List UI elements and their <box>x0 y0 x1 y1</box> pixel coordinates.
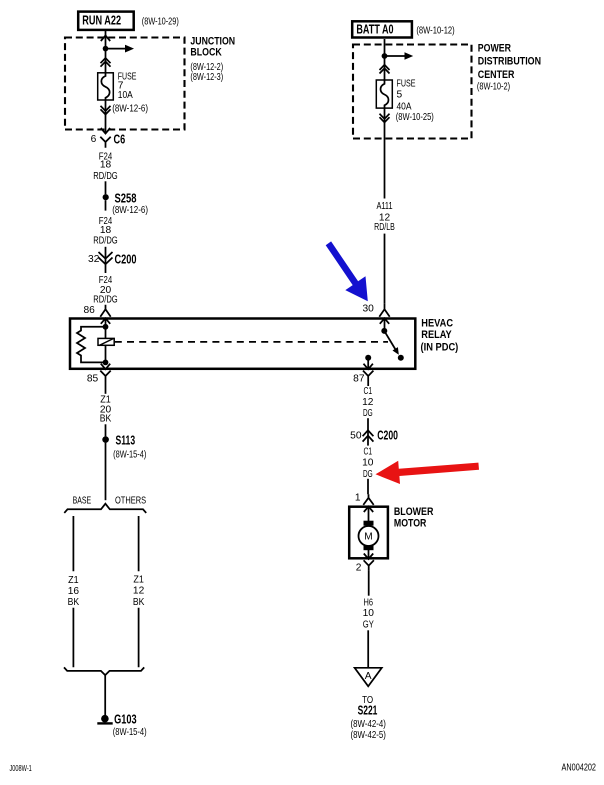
svg-text:(8W-10-29): (8W-10-29) <box>142 16 179 27</box>
svg-text:DISTRIBUTION: DISTRIBUTION <box>478 56 541 68</box>
svg-text:(8W-12-3): (8W-12-3) <box>190 72 223 83</box>
svg-text:S221: S221 <box>358 703 378 718</box>
svg-text:DG: DG <box>363 469 373 480</box>
svg-text:BASE: BASE <box>73 496 92 507</box>
svg-text:(8W-12-6): (8W-12-6) <box>112 205 148 216</box>
svg-text:18: 18 <box>100 225 112 236</box>
svg-text:2: 2 <box>356 562 362 573</box>
svg-text:50: 50 <box>350 431 362 442</box>
svg-text:GY: GY <box>363 619 374 630</box>
svg-text:10: 10 <box>363 608 375 619</box>
svg-text:J008W-1: J008W-1 <box>10 763 33 773</box>
svg-text:BK: BK <box>133 597 145 608</box>
svg-text:BATT A0: BATT A0 <box>356 22 393 37</box>
svg-text:BK: BK <box>100 413 112 424</box>
svg-text:MOTOR: MOTOR <box>394 517 427 529</box>
svg-text:RELAY: RELAY <box>421 329 452 341</box>
svg-text:32: 32 <box>88 254 100 265</box>
svg-text:CENTER: CENTER <box>478 69 515 81</box>
svg-text:C1: C1 <box>364 446 373 457</box>
svg-text:BLOCK: BLOCK <box>190 46 222 58</box>
svg-text:86: 86 <box>83 305 95 316</box>
svg-text:40A: 40A <box>397 102 412 113</box>
svg-text:Z1: Z1 <box>133 575 144 586</box>
svg-text:RD/LB: RD/LB <box>374 222 395 233</box>
svg-text:87: 87 <box>353 373 365 384</box>
svg-text:S113: S113 <box>116 432 136 447</box>
svg-text:12: 12 <box>362 397 374 408</box>
svg-text:RUN A22: RUN A22 <box>82 13 121 28</box>
svg-text:FUSE: FUSE <box>397 78 416 89</box>
svg-text:RD/DG: RD/DG <box>93 171 117 182</box>
svg-text:1: 1 <box>355 493 361 504</box>
svg-text:C200: C200 <box>115 251 137 266</box>
svg-text:6: 6 <box>91 134 97 145</box>
svg-text:G103: G103 <box>114 712 137 727</box>
svg-text:RD/DG: RD/DG <box>93 235 117 246</box>
svg-text:16: 16 <box>68 586 80 597</box>
svg-text:85: 85 <box>87 374 99 385</box>
svg-text:10A: 10A <box>118 90 133 101</box>
svg-text:BK: BK <box>68 597 80 608</box>
svg-text:AN004202: AN004202 <box>562 762 597 773</box>
svg-text:C6: C6 <box>114 131 126 146</box>
svg-text:DG: DG <box>363 408 373 419</box>
svg-text:30: 30 <box>362 303 374 314</box>
svg-text:H6: H6 <box>364 597 374 608</box>
svg-text:OTHERS: OTHERS <box>115 496 146 507</box>
svg-text:10: 10 <box>362 458 374 469</box>
svg-text:C200: C200 <box>377 427 398 442</box>
svg-text:(8W-42-5): (8W-42-5) <box>351 730 386 741</box>
svg-text:(8W-42-4): (8W-42-4) <box>351 719 386 730</box>
svg-text:A: A <box>365 671 372 682</box>
svg-text:(8W-15-4): (8W-15-4) <box>113 449 146 460</box>
svg-text:18: 18 <box>100 160 112 171</box>
svg-text:(8W-10-25): (8W-10-25) <box>396 112 434 123</box>
svg-text:12: 12 <box>133 586 145 597</box>
svg-text:Z1: Z1 <box>68 575 79 586</box>
svg-text:(8W-12-6): (8W-12-6) <box>112 103 148 114</box>
svg-text:(8W-10-2): (8W-10-2) <box>477 81 510 92</box>
svg-text:(8W-10-12): (8W-10-12) <box>416 25 454 36</box>
svg-text:A111: A111 <box>376 201 392 212</box>
svg-text:POWER: POWER <box>478 42 511 54</box>
svg-text:M: M <box>364 532 372 543</box>
svg-text:C1: C1 <box>364 386 373 397</box>
svg-text:HEVAC: HEVAC <box>421 318 453 330</box>
svg-text:(8W-15-4): (8W-15-4) <box>113 727 147 738</box>
svg-text:BLOWER: BLOWER <box>394 506 434 518</box>
svg-text:S258: S258 <box>115 190 137 205</box>
svg-text:5: 5 <box>397 90 403 101</box>
svg-text:RD/DG: RD/DG <box>93 295 117 306</box>
svg-text:(IN PDC): (IN PDC) <box>421 341 459 353</box>
